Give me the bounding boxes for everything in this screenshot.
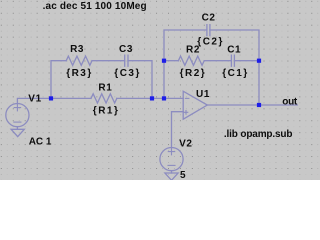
junction node B	[162, 59, 166, 63]
svg-text:C2: C2	[202, 12, 216, 23]
svg-text:C1: C1	[227, 45, 241, 56]
svg-text:{C2}: {C2}	[197, 36, 224, 47]
svg-text:{R1}: {R1}	[93, 105, 120, 116]
svg-text:.ac dec 51 100 10Meg: .ac dec 51 100 10Meg	[43, 1, 147, 12]
wire node B to R2	[164, 60, 178, 62]
wire V2 bottom stub	[171, 171, 173, 173]
voltage source V1 circle	[6, 104, 29, 127]
V2 minus sign	[168, 164, 175, 166]
svg-text:{C3}: {C3}	[114, 68, 141, 79]
junction output	[257, 103, 261, 107]
junction at node A	[49, 96, 53, 100]
ground under V1	[11, 129, 24, 136]
svg-text:V1: V1	[28, 94, 41, 105]
svg-text:R3: R3	[70, 44, 84, 55]
wire R2 to C1	[204, 60, 231, 62]
junction loop right on main wire	[150, 96, 154, 100]
svg-text:5: 5	[180, 170, 186, 180]
svg-text:R1: R1	[98, 83, 112, 94]
junction C1 right	[257, 59, 261, 63]
svg-text:U1: U1	[196, 89, 210, 100]
svg-text:{C1}: {C1}	[222, 68, 249, 79]
V1 plus sign	[14, 104, 20, 110]
op-amp plus glyph	[184, 111, 188, 115]
ground under V2	[165, 173, 178, 180]
capacitor C2	[207, 25, 210, 36]
wire C1 to right vertical	[234, 60, 259, 62]
svg-text:{R2}: {R2}	[180, 68, 207, 79]
wire node A vertical and top to R3	[51, 61, 66, 99]
resistor R1	[91, 94, 117, 103]
svg-text:C3: C3	[119, 44, 133, 55]
op-amp U1 triangle	[183, 91, 207, 119]
svg-text:out: out	[282, 96, 298, 107]
svg-text:V2: V2	[179, 138, 192, 149]
svg-text:AC 1: AC 1	[29, 136, 52, 147]
V2 plus sign	[168, 148, 174, 154]
wire C2 loop left vertical and top to C2	[164, 30, 207, 98]
wire V1 bottom stub	[16, 127, 18, 130]
voltage source V2 circle	[160, 148, 183, 171]
svg-text:{R3}: {R3}	[66, 68, 93, 79]
capacitor C3	[125, 55, 128, 66]
wire V1 top stub and main wire to R1	[17, 98, 91, 103]
wire op-amp output to out	[207, 104, 297, 106]
wire C3 to loop right vertical	[128, 61, 152, 99]
op-amp minus glyph	[185, 97, 189, 99]
wire R3 to C3	[92, 60, 125, 62]
resistor R3	[66, 56, 92, 65]
junction C2 loop on main wire	[162, 96, 166, 100]
capacitor C1	[231, 55, 234, 66]
resistor R2	[178, 56, 204, 65]
wire op-amp plus input to V2	[172, 112, 184, 148]
wire C2 to right vertical down to output	[210, 30, 259, 105]
svg-text:R2: R2	[186, 45, 200, 56]
V1 minus sign	[14, 121, 21, 123]
wire R1 to op-amp minus input	[117, 97, 183, 99]
svg-text:.lib opamp.sub: .lib opamp.sub	[224, 129, 292, 140]
